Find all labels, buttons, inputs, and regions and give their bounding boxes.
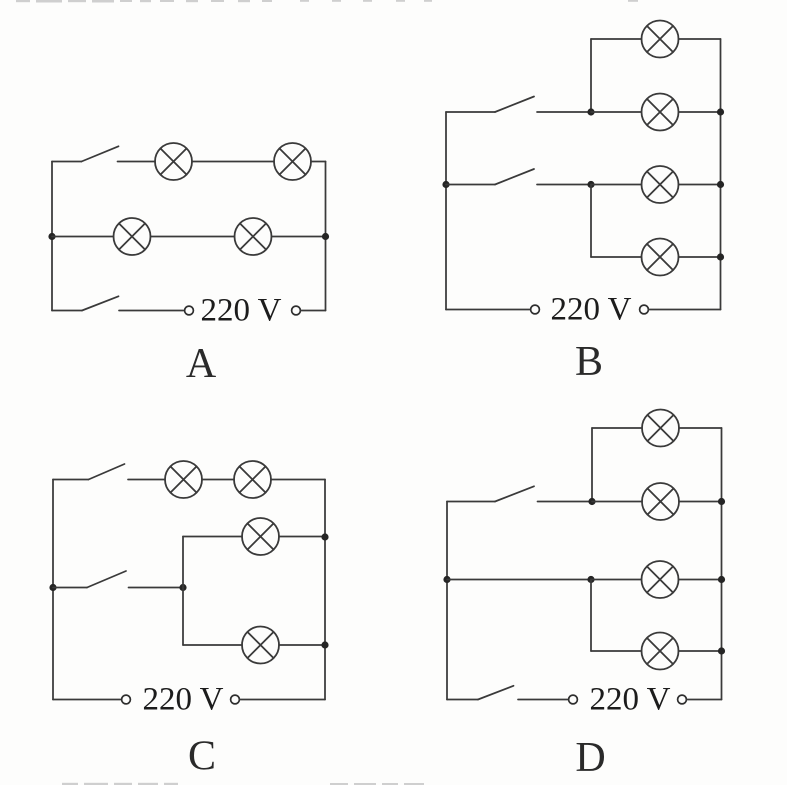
lamp L5 <box>642 21 679 58</box>
wire C top row (L9 to L10) <box>202 479 234 481</box>
wire B top branch left vertical <box>590 39 592 112</box>
wire B right vertical <box>720 39 722 310</box>
wire D right vertical <box>721 428 723 700</box>
lamp L1 <box>155 143 192 180</box>
wire C bottom (left to terminal) <box>53 699 122 701</box>
wire D top branch left vertical <box>591 428 593 502</box>
node D3-right <box>718 647 725 654</box>
svg-text:B: B <box>575 339 603 385</box>
wire C right vertical <box>324 480 326 700</box>
node B-left junction <box>442 181 449 188</box>
wire B line 2 (node to lamp L7) <box>591 184 642 186</box>
lamp L13 <box>642 410 679 447</box>
node A-right junction <box>322 233 329 240</box>
lamp L16 <box>642 633 679 670</box>
lamp L11 <box>242 518 279 555</box>
terminal A left <box>185 306 194 315</box>
switch S6 (C middle row) <box>53 571 126 588</box>
wire D middle line (left to node) <box>447 579 591 581</box>
wire B line 2 (switch to node) <box>537 184 591 186</box>
wire C lower lamp row (L12 to right wire) <box>279 644 325 646</box>
terminal A right <box>292 306 301 315</box>
node D1-right <box>718 498 725 505</box>
wire D lower branch (to lamp L16) <box>591 650 642 652</box>
wire B lower branch vertical <box>590 185 592 258</box>
switch S3 (B line 1) <box>446 97 534 113</box>
wire A middle branch (L3 to L4) <box>151 236 235 238</box>
wire A left vertical <box>51 162 53 311</box>
node B3-right <box>717 253 724 260</box>
switch S4 (B line 2) <box>446 169 534 185</box>
wire D top branch (to lamp L13) <box>592 427 642 429</box>
wire A middle branch (left to lamp L3) <box>52 236 114 238</box>
wire C upper lamp row (L11 to right wire) <box>279 536 325 538</box>
wire B lower branch (L8 to right wire) <box>679 256 721 258</box>
terminal D left <box>569 695 578 704</box>
node A-left junction <box>48 233 55 240</box>
lamp L14 <box>642 483 679 520</box>
wire D line 1 (L14 to right wire) <box>679 501 722 503</box>
wire D top branch (L13 to right wire) <box>679 427 722 429</box>
lamp L7 <box>642 166 679 203</box>
node C-mid <box>179 584 186 591</box>
lamp L4 <box>235 218 272 255</box>
lamp L15 <box>642 561 679 598</box>
node C-left junction <box>49 584 56 591</box>
terminal C left <box>122 695 131 704</box>
terminal C right <box>231 695 240 704</box>
wire A bottom branch (switch to terminal) <box>119 310 184 312</box>
wire A top branch (L1 to L2) <box>192 161 274 163</box>
wire A top branch (L2 to right wire) <box>311 161 326 163</box>
lamp L12 <box>242 627 279 664</box>
wire C bottom (terminal to right wire) <box>240 699 326 701</box>
svg-text:220 V: 220 V <box>590 682 671 718</box>
wire B lower branch (to lamp L8) <box>591 256 642 258</box>
wire D line 1 (switch to node) <box>538 501 593 503</box>
node B2-right <box>717 181 724 188</box>
terminal D right <box>678 695 687 704</box>
node D1 <box>588 498 595 505</box>
node B2 <box>587 181 594 188</box>
wire C parallel-pair left vertical <box>182 537 184 646</box>
wire B line 2 (L7 to right wire) <box>679 184 721 186</box>
node C1-right <box>321 533 328 540</box>
svg-text:220 V: 220 V <box>143 682 224 718</box>
wire A top branch (switch to lamp L1) <box>118 161 156 163</box>
wire D middle line (L15 to right wire) <box>679 579 722 581</box>
wire B line 1 (switch to node) <box>537 111 591 113</box>
wire A right vertical <box>325 162 327 311</box>
switch S8 (D bottom) <box>447 686 514 700</box>
node D-left junction <box>443 576 450 583</box>
wire D lower branch vertical <box>590 580 592 652</box>
wire D line 1 (node to lamp L14) <box>592 501 642 503</box>
wire C middle row (switch to node) <box>129 587 184 589</box>
wire D bottom (switch to terminal) <box>518 699 568 701</box>
lamp L8 <box>642 239 679 276</box>
wire C left vertical <box>52 480 54 700</box>
node D2 <box>587 576 594 583</box>
switch S5 (C top row) <box>53 464 125 480</box>
svg-text:A: A <box>186 341 217 387</box>
switch S2 (A bottom branch) <box>52 296 119 310</box>
wire B line 1 (node to lamp L6) <box>591 111 642 113</box>
wire C upper lamp row (to lamp L11) <box>183 536 242 538</box>
lamp L2 <box>274 143 311 180</box>
wire C lower lamp row (to lamp L12) <box>183 644 242 646</box>
wire B top branch (L5 to right wire) <box>679 38 721 40</box>
wire B top branch (to lamp L5) <box>591 38 642 40</box>
wire C top row (L10 to right wire) <box>271 479 325 481</box>
node D2-right <box>718 576 725 583</box>
lamp L9 <box>165 461 202 498</box>
wire C top row (switch to lamp L9) <box>128 479 165 481</box>
terminal B right <box>640 305 649 314</box>
lamp L3 <box>114 218 151 255</box>
lamp L6 <box>642 94 679 131</box>
wire B left vertical <box>445 112 447 310</box>
svg-text:D: D <box>575 735 605 781</box>
switch S1 (A top branch) <box>52 146 119 161</box>
wire A middle branch (L4 to right wire) <box>272 236 326 238</box>
wire A bottom branch (terminal to right wire) <box>301 310 326 312</box>
wire D left vertical <box>446 502 448 700</box>
wire B bottom (terminal to right wire) <box>649 309 721 311</box>
svg-text:220 V: 220 V <box>201 293 282 329</box>
wire B bottom (left to terminal) <box>446 309 531 311</box>
terminal B left <box>531 305 540 314</box>
svg-text:C: C <box>188 734 216 780</box>
svg-text:220 V: 220 V <box>551 292 632 328</box>
node B1 <box>587 108 594 115</box>
node C2-right <box>321 641 328 648</box>
wire D lower branch (L16 to right wire) <box>679 650 722 652</box>
wire D bottom (terminal to right wire) <box>687 699 722 701</box>
node B1-right <box>717 108 724 115</box>
wire D middle line (node to lamp L15) <box>591 579 642 581</box>
wire B line 1 (L6 to right wire) <box>679 111 721 113</box>
lamp L10 <box>234 461 271 498</box>
switch S7 (D line 1) <box>447 486 534 501</box>
